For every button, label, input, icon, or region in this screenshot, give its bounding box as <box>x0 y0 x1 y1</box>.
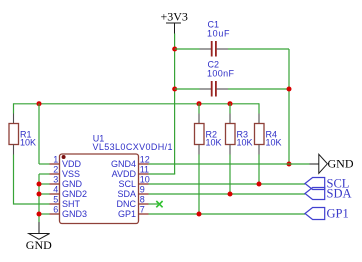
node junction C2 left <box>172 87 177 92</box>
node junction C2 right <box>287 87 292 92</box>
net flag GP1 <box>305 208 325 220</box>
pin 1 indicator dot <box>62 155 66 159</box>
wire VSS link <box>39 173 50 175</box>
pin 12 stub <box>139 163 149 165</box>
svg-text:3: 3 <box>53 175 58 185</box>
svg-text:GND4: GND4 <box>111 159 136 169</box>
svg-text:6: 6 <box>53 205 58 215</box>
node junction GND4 row <box>287 162 292 167</box>
svg-text:GP1: GP1 <box>327 207 349 221</box>
node junction C1 left <box>172 47 177 52</box>
svg-text:SDA: SDA <box>117 189 136 199</box>
wire R2 bottom to GP1 row <box>198 155 200 215</box>
svg-text:SDA: SDA <box>327 187 352 201</box>
wire R3 bottom to SDA row <box>229 155 231 195</box>
power symbol +3V3 <box>166 23 181 34</box>
ground symbol left <box>29 222 50 239</box>
svg-text:GND: GND <box>26 238 52 252</box>
wire C1 right <box>228 48 289 50</box>
svg-text:GND2: GND2 <box>62 189 87 199</box>
resistor R3 <box>226 103 236 154</box>
wire +3V3 vertical (symbol to AVDD row) <box>174 34 176 175</box>
svg-text:GP1: GP1 <box>118 209 136 219</box>
pin 4 stub <box>50 193 60 195</box>
svg-text:SCL: SCL <box>118 179 136 189</box>
svg-text:10K: 10K <box>206 138 222 148</box>
pin 6 stub <box>50 213 60 215</box>
pin 10 stub <box>139 183 149 185</box>
svg-text:VDD: VDD <box>62 159 82 169</box>
svg-text:GND: GND <box>328 157 354 171</box>
svg-text:VL53L0CXV0DH/1: VL53L0CXV0DH/1 <box>93 142 173 152</box>
svg-text:10K: 10K <box>20 138 36 148</box>
op-amp U1 chip body <box>60 154 139 224</box>
svg-text:11: 11 <box>140 165 149 175</box>
svg-text:GND: GND <box>62 179 83 189</box>
node junction R3 top <box>228 101 233 106</box>
svg-text:4: 4 <box>53 185 58 195</box>
wire GND4 row <box>149 163 310 165</box>
wire GP1 row <box>149 213 306 215</box>
wire R1 bottom to SHT <box>14 155 50 205</box>
svg-text:10uF: 10uF <box>207 28 230 38</box>
wire VDD link <box>39 163 50 165</box>
node junction R2 bottom <box>197 212 202 217</box>
pin stubs right <box>139 164 149 214</box>
pin 8 stub <box>139 203 149 205</box>
wire C2 left <box>175 88 200 90</box>
pin 9 stub <box>139 193 149 195</box>
net flag SDA <box>305 188 325 200</box>
node junction pin6 row <box>37 212 42 217</box>
resistor R2 <box>195 103 205 154</box>
svg-text:GND3: GND3 <box>62 209 87 219</box>
svg-text:100nF: 100nF <box>207 68 235 78</box>
wire C1 left <box>175 48 200 50</box>
wire decoupling right vertical <box>288 49 290 164</box>
wire SDA row <box>149 193 306 195</box>
svg-text:10K: 10K <box>237 138 253 148</box>
wire GND3 pin6 link <box>39 213 50 215</box>
svg-text:5: 5 <box>53 195 58 205</box>
svg-text:10K: 10K <box>266 138 282 148</box>
svg-text:+3V3: +3V3 <box>161 9 188 23</box>
wire SCL row <box>149 183 306 185</box>
pin 1 stub <box>50 163 60 165</box>
wire VDD vertical <box>38 104 40 165</box>
no-connect X on DNC <box>156 201 162 207</box>
net flag SCL <box>305 178 325 190</box>
node junction VDD rail <box>37 101 42 106</box>
wire AVDD link <box>149 173 176 175</box>
node junction R3 bottom <box>228 192 233 197</box>
capacitor C2 <box>200 81 229 97</box>
node junction pin4 row <box>37 192 42 197</box>
resistor R4 <box>255 103 265 154</box>
svg-text:VSS: VSS <box>62 169 80 179</box>
wire R4 bottom to SCL row <box>258 155 260 185</box>
wire GND rail vertical <box>38 174 40 222</box>
pin stubs left <box>50 164 60 214</box>
svg-text:1: 1 <box>53 155 58 165</box>
wire C2 right <box>228 88 289 90</box>
svg-text:12: 12 <box>140 155 150 165</box>
pin 11 stub <box>139 173 149 175</box>
svg-text:2: 2 <box>53 165 58 175</box>
node junction R2 top <box>197 101 202 106</box>
ground symbol right <box>310 154 328 173</box>
svg-text:AVDD: AVDD <box>112 169 137 179</box>
wire GND pin3 link <box>39 183 50 185</box>
wire +3V3 rail <box>14 103 260 105</box>
resistor R1 <box>9 103 19 154</box>
node junction pin3 row <box>37 182 42 187</box>
pin 7 stub <box>139 213 149 215</box>
capacitor C1 <box>200 41 229 57</box>
svg-text:9: 9 <box>140 185 145 195</box>
pin 3 stub <box>50 183 60 185</box>
node junction R4 bottom <box>257 182 262 187</box>
svg-text:7: 7 <box>140 205 145 215</box>
wire GND2 pin4 link <box>39 193 50 195</box>
svg-text:8: 8 <box>140 195 145 205</box>
wire DNC stub <box>149 203 159 205</box>
svg-text:10: 10 <box>140 175 150 185</box>
pin 5 stub <box>50 203 60 205</box>
svg-text:SHT: SHT <box>62 199 81 209</box>
pin 2 stub <box>50 173 60 175</box>
svg-text:DNC: DNC <box>117 199 137 209</box>
